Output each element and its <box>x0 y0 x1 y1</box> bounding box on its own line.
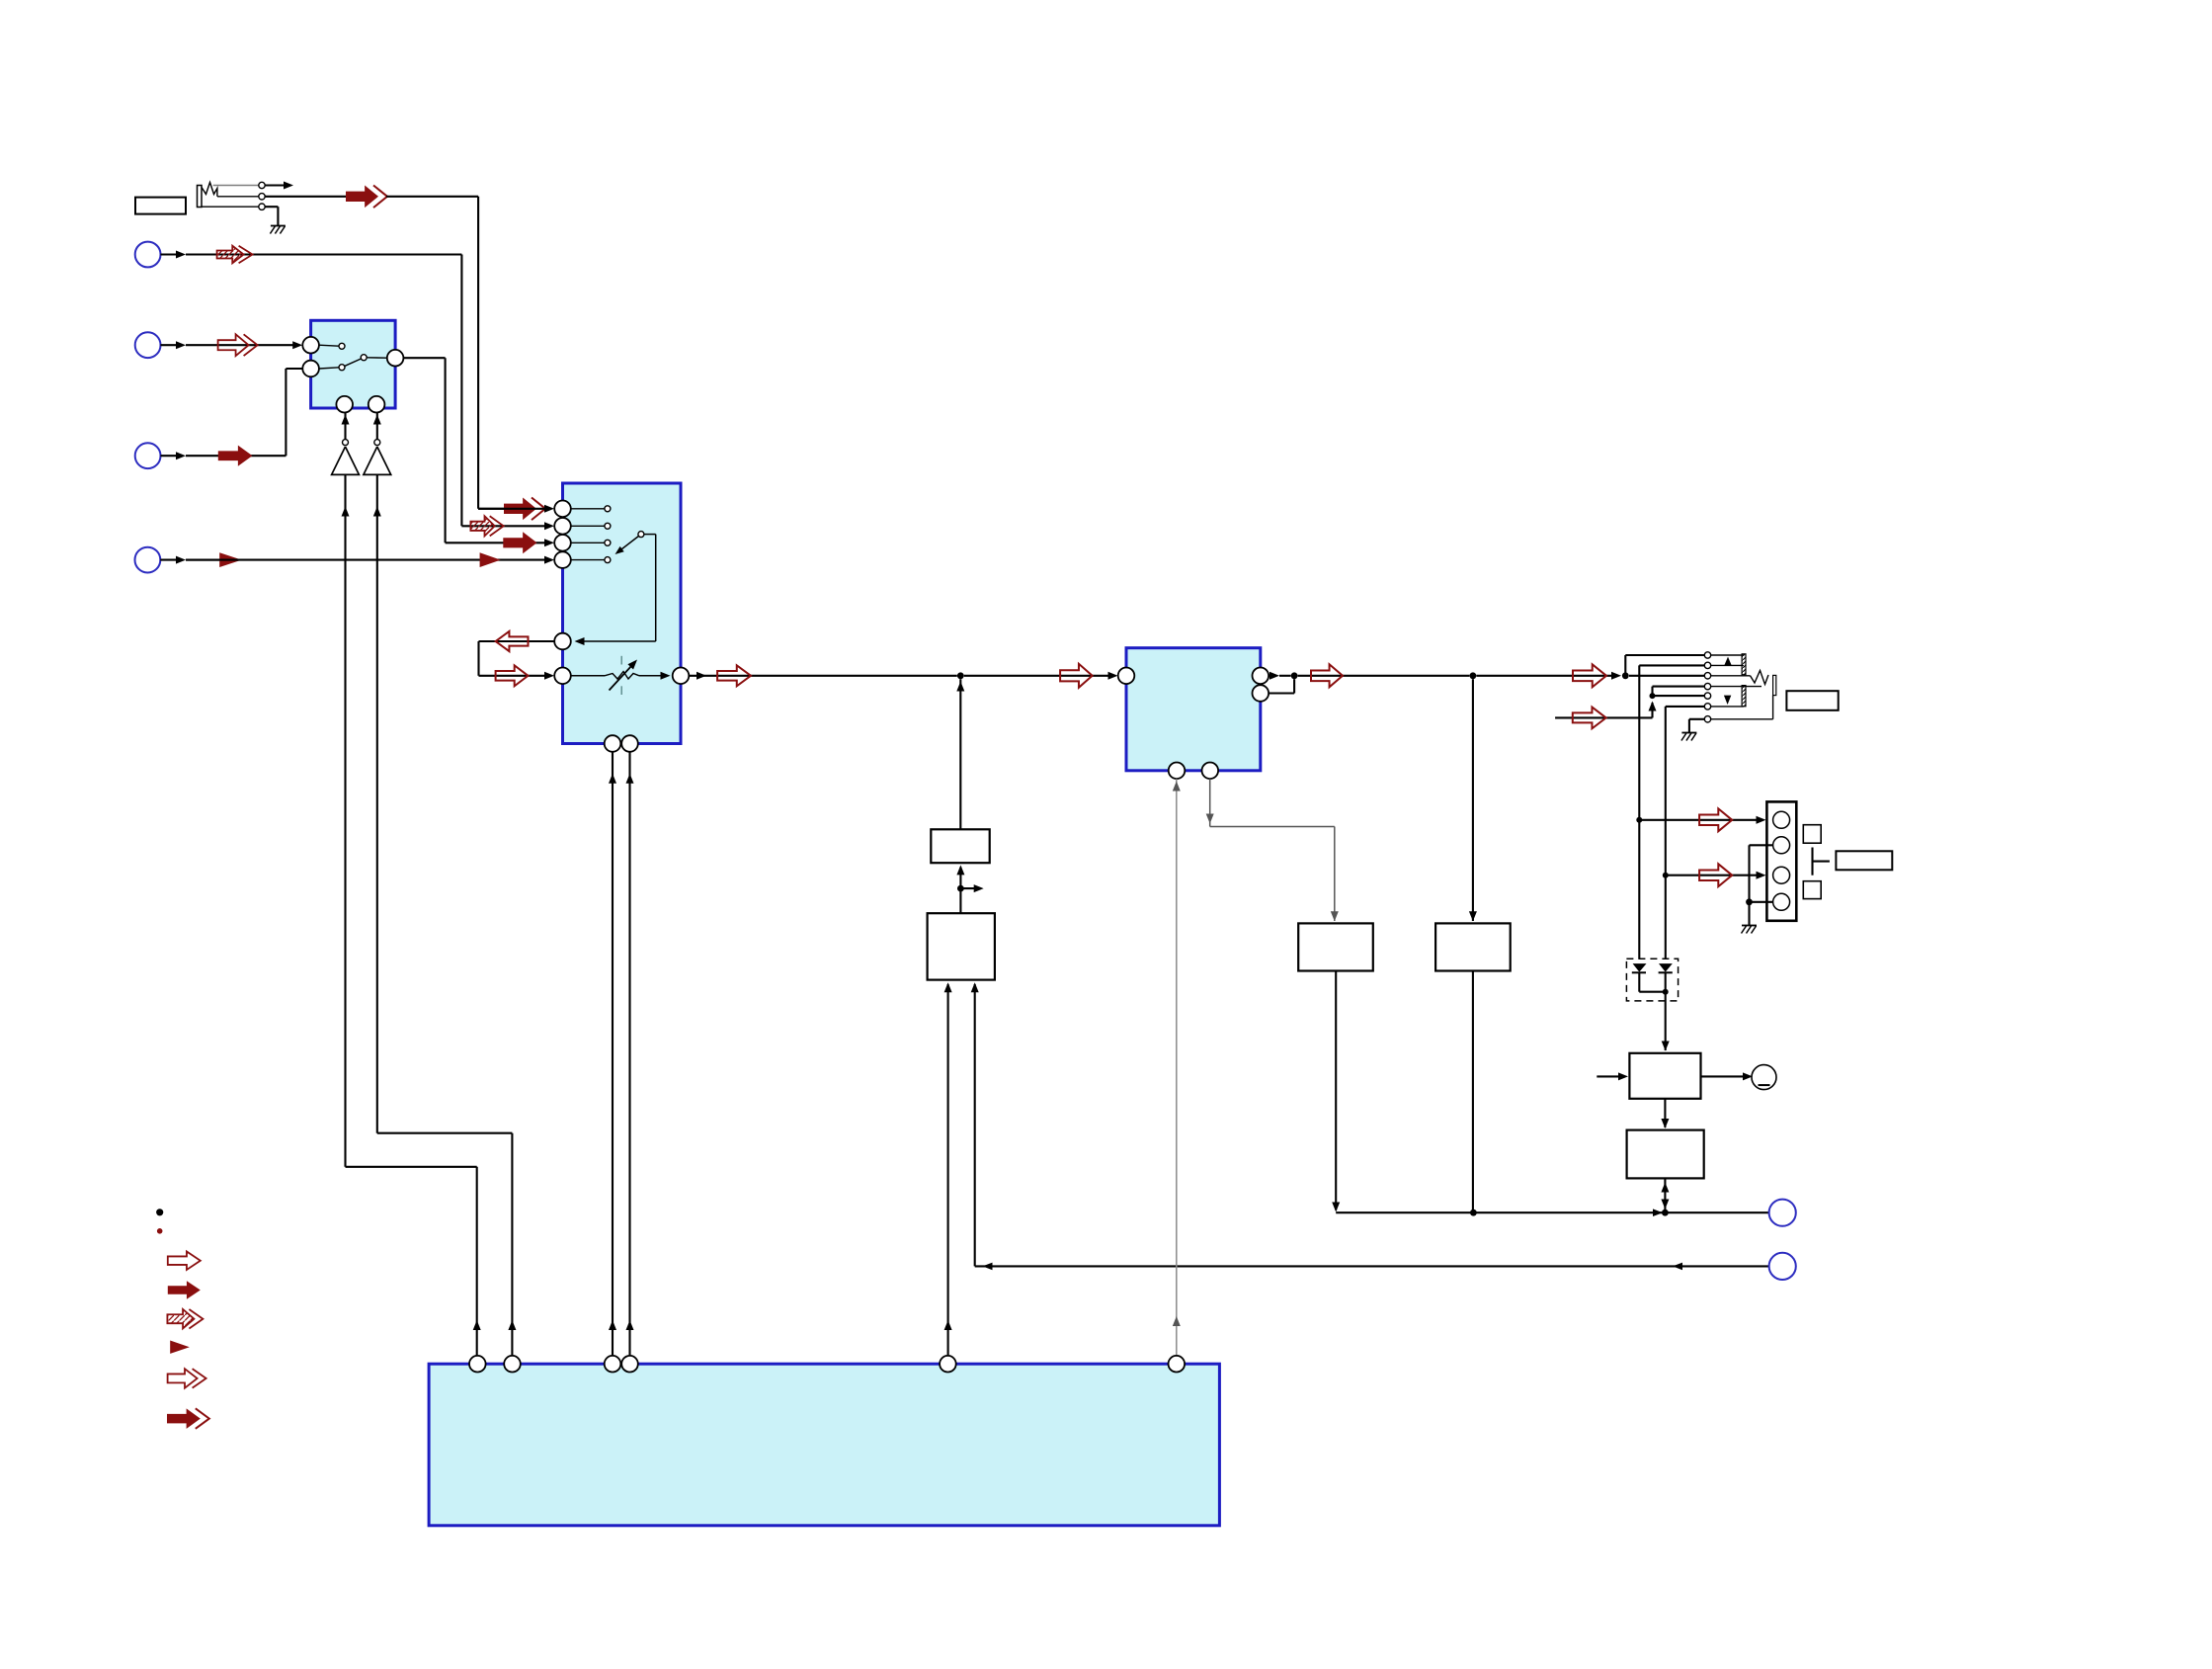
IC2 pin G (out, right) <box>673 668 690 685</box>
wire c7 to plug body <box>1711 718 1773 720</box>
wire into speaker pin1 with arrowhead <box>1757 816 1766 824</box>
speaker terminal square 2 <box>1803 881 1821 899</box>
IC3 pin bottom 1 <box>1169 763 1186 780</box>
wire main line after pin G <box>689 675 957 677</box>
IC4 pin 1 <box>469 1356 486 1373</box>
junction node bus/power <box>1662 1210 1669 1216</box>
CN1 pin 4 <box>1773 893 1790 910</box>
wire main line junction to arrow2 <box>964 675 1108 677</box>
IC2 pin A <box>554 501 571 518</box>
HP plug zigzag (tip spring) <box>1711 675 1751 677</box>
wire c4 to corner <box>1653 686 1705 688</box>
CN1 pin 3 <box>1773 867 1790 883</box>
junction node bus/B4 <box>1470 1210 1477 1216</box>
wire CN1 pin2 to ground rail <box>1750 844 1773 846</box>
IC3 pin L (left) <box>1118 668 1135 685</box>
wire riser to HP contact row 1 <box>1624 655 1626 676</box>
HP sleeve hatched bar upper <box>1742 654 1746 675</box>
HP contact circle c2 <box>1704 662 1710 668</box>
wire from J4 with arrowhead <box>161 455 178 457</box>
wire into IC3 with arrowhead <box>1108 672 1118 680</box>
wire diode common to motor-drive block with arrowhead <box>1665 992 1667 1050</box>
wire rec loop down <box>477 641 479 676</box>
IC1 switch contact a <box>319 345 339 346</box>
IC2 input selector + volume box <box>563 483 682 744</box>
wire rec/line2 with up arrowhead to c4/c5 <box>1649 702 1657 711</box>
IC1 pin OUT (right) <box>387 350 404 367</box>
CN1 pin 2 <box>1773 837 1790 854</box>
wire c1 to sleeve bar <box>1711 654 1744 656</box>
arrow open double-chevron (J3 line) <box>218 334 249 356</box>
wire (gray) IC3 bottom pin1 from system box with arrowheads <box>1176 779 1178 1356</box>
wire IC1 bottom pin1 down with arrowhead <box>344 413 346 440</box>
IC2 pin bottom 2 <box>621 735 638 752</box>
IC1 pin bottom 1 <box>336 396 353 413</box>
arrow open right (into IC2 pin F) <box>496 665 529 686</box>
IC1 switch pole contact b <box>367 357 387 359</box>
HP contact circle c7 <box>1704 716 1710 722</box>
wire control into B5 with arrowhead <box>1597 1075 1621 1077</box>
wire IC2 bottom pin2 down to IC4 with arrowheads <box>628 752 630 1356</box>
arrow open left (rec out of IC2 pin E) <box>479 640 555 642</box>
junction node headphone tie <box>1622 672 1629 679</box>
wire speaker R from c6-vertical junction <box>1663 873 1669 878</box>
wire from J5 with arrowhead <box>160 559 177 561</box>
IC2 pin E (rec out) <box>554 633 571 650</box>
arrow small filled triangle (J5 line) #2 <box>480 552 501 567</box>
arrow open (main line 3) <box>1311 664 1343 687</box>
wire MIC tip row <box>213 185 259 187</box>
wire from J2 with arrowhead <box>161 253 178 255</box>
label box (part no.) for MIC jack <box>135 198 186 214</box>
legend arrow filled double-chevron <box>167 1408 201 1429</box>
legend black dot <box>156 1209 163 1215</box>
wire B4 down to bus junction <box>1472 971 1474 1213</box>
HP contact circle c5 <box>1704 693 1710 699</box>
wire speaker L from c2-vertical junction <box>1636 817 1642 823</box>
IC2 selector lever with arrowhead <box>619 536 639 551</box>
wire corner to remote line with left arrowhead <box>975 1265 1769 1267</box>
wire B5 to motor with arrowhead <box>1701 1075 1746 1077</box>
block B6 power supply reg <box>1627 1130 1704 1179</box>
wire B5 down to B6 with arrowhead <box>1664 1099 1666 1127</box>
legend arrow hatched double-chevron <box>167 1309 194 1329</box>
IC2 pin D <box>554 551 571 568</box>
jack J3 (line input 2) blue circle <box>135 332 161 358</box>
HP plug sleeve arrow down <box>1724 696 1731 705</box>
IC2 inner contact 3 <box>571 542 605 543</box>
wire IC1 OUT to jog down into IC2 pin C <box>403 357 445 359</box>
ground (speaker return) <box>1742 925 1757 927</box>
IC2 volume attenuator symbol <box>571 675 605 677</box>
wire B3 down to bus with arrowhead <box>1335 971 1337 1210</box>
diode pack dashed box <box>1626 959 1678 1001</box>
wire mute block up to main junction with arrowhead <box>959 679 961 829</box>
jack J4 (line input 3) blue circle <box>135 443 161 468</box>
wire into IC2 pin A with arrowhead <box>478 508 546 510</box>
block B3 (meter drive) <box>1298 923 1373 970</box>
buffer amp 1 apex contact <box>343 440 349 446</box>
IC4 pin 3 <box>605 1356 621 1373</box>
IC1 pin B (left bottom) <box>302 361 319 377</box>
contact circle MIC ring <box>259 194 265 200</box>
diode D1 <box>1633 963 1647 972</box>
arrow filled double-chevron into IC2 pin A <box>504 498 536 521</box>
IC2 inner contact 1 <box>571 508 605 510</box>
IC2 selector pivot contact <box>638 532 644 538</box>
buffer amp 1 triangle <box>332 447 360 474</box>
wire main junction down into B4 with arrowhead <box>1472 679 1474 921</box>
IC4 pin 4 <box>621 1356 638 1373</box>
legend dark red dot <box>157 1228 163 1234</box>
HP plug tip arrow up <box>1724 657 1731 666</box>
wire B6 to power bus with arrowheads <box>1664 1178 1666 1212</box>
connector CN1 speaker block <box>1766 801 1796 920</box>
contact circle MIC sleeve <box>259 204 265 209</box>
wire down to ground <box>1748 902 1750 926</box>
jack J5 (line input 4) blue circle <box>135 547 161 573</box>
arrow hatched double-chevron into IC2 pin B <box>470 516 494 536</box>
IC3 pin R1 (right out) <box>1253 668 1270 685</box>
tap arrow right (label removed) <box>960 887 977 889</box>
wire junction to headphone arrow <box>1476 675 1613 677</box>
wire into speaker pin3 with arrowhead <box>1757 872 1766 879</box>
wire J2 line to corner x467 <box>460 255 462 527</box>
wire beep junction to block B1 with arrowhead <box>956 865 964 875</box>
IC1 switch contact c <box>319 368 339 369</box>
wire IC3 R2 joins main line <box>1269 692 1294 694</box>
IC2 pin F (vol in) <box>554 668 571 685</box>
motor M1 symbol <box>1752 1065 1776 1090</box>
IC1 pin bottom 2 <box>369 396 385 413</box>
jack J2 (line input 1) blue circle <box>135 242 161 268</box>
wire c6 row to vertical (speaker feed R) <box>1666 706 1705 708</box>
contact circle MIC tip <box>259 182 265 188</box>
wire junction down to block B2 <box>959 888 961 913</box>
speaker terminal square 1 <box>1803 825 1821 844</box>
junction node beep tap <box>957 885 964 892</box>
wire buffer1 down to jog with arrowheads <box>344 474 346 1166</box>
legend arrow open double-chevron <box>168 1369 198 1388</box>
junction node R2/main <box>1291 672 1298 679</box>
wire main line to arrow3 <box>1298 675 1470 677</box>
IC2 inner contact 2 <box>571 525 605 527</box>
arrow open (main line 1) <box>717 665 751 686</box>
IC1 pin A (left top) <box>302 337 319 354</box>
jack J1 MIC body bracket <box>198 186 203 208</box>
arrow open (line-2 into jack switch) <box>1555 716 1652 718</box>
speaker tie bar <box>1811 848 1813 876</box>
block B1 (muting) <box>931 829 989 863</box>
wire main into c3 <box>1629 675 1704 677</box>
IC3 amplifier box <box>1126 648 1261 771</box>
wire c5 branch from junction <box>1650 693 1656 699</box>
legend arrow filled <box>168 1281 201 1299</box>
HP plug bracket <box>1773 675 1776 695</box>
junction node diode common <box>1663 989 1669 995</box>
jack J7 (remote) blue circle <box>1769 1253 1796 1280</box>
wire c2 row to vertical (speaker feed L) <box>1711 664 1744 666</box>
resistor zigzag in MIC jack <box>202 183 217 197</box>
CN1 pin 1 <box>1773 811 1790 828</box>
buffer amp 2 apex contact <box>374 440 380 446</box>
wire c7 to ground tap <box>1689 718 1704 720</box>
HP contact circle c6 <box>1704 704 1710 709</box>
wire vertical c2 down to speaker connector and diode <box>1638 665 1640 963</box>
label box (part no.) speaker <box>1836 851 1892 870</box>
IC4 pin 2 <box>504 1356 521 1373</box>
bus wire to jack J6 with arrowhead <box>1336 1211 1768 1213</box>
wire MIC line to selector corner <box>386 196 478 198</box>
arrow open (to headphone jack) <box>1573 664 1606 687</box>
IC1 relay/record selector box <box>311 320 396 408</box>
arrow open (speaker L) <box>1699 808 1732 831</box>
wire (gray) IC3 bottom pin2 to meter block with arrowheads <box>1209 779 1211 826</box>
IC1 switch lever <box>345 359 362 366</box>
wire J5 line across <box>186 559 546 561</box>
IC2 selector pole wire to pin E <box>644 534 656 536</box>
IC3 pin bottom 2 <box>1202 763 1219 780</box>
arrow filled into IC2 pin C <box>503 532 536 553</box>
wire from J3 with arrowhead <box>161 344 178 346</box>
arrow small filled triangle (J5 line) #1 <box>219 552 241 567</box>
HP sleeve hatched bar lower <box>1742 686 1746 707</box>
diode D2 <box>1659 963 1673 972</box>
wire J4 jog up to relay box pin B <box>285 369 287 456</box>
wire up into B2 with arrowhead (right) <box>971 982 979 992</box>
wire attenuator to pin G with arrowhead <box>661 672 671 680</box>
buffer amp 2 triangle <box>364 447 391 474</box>
IC2 pin B <box>554 518 571 535</box>
HP contact circle c3 <box>1704 673 1710 679</box>
HP contact circle c1 <box>1704 652 1710 658</box>
jack J6 (DC in) blue circle <box>1769 1200 1796 1226</box>
wire into IC2 pin C with arrowhead <box>544 539 554 546</box>
IC2 inner contact 4 <box>571 559 605 561</box>
wire J3 to relay box pin with arrowhead <box>292 341 302 349</box>
label box (part no.) headphone jack <box>1786 691 1838 710</box>
IC4 pin 5 <box>940 1356 956 1373</box>
IC2 pin C <box>554 535 571 551</box>
junction node speaker ground <box>1746 898 1753 905</box>
ground (MIC jack sleeve) <box>271 225 286 227</box>
block B5 motor drive <box>1629 1053 1700 1099</box>
arrow open (speaker R) <box>1699 864 1732 886</box>
wire CN1 pin4 to ground rail <box>1750 901 1773 903</box>
wire into headphone jack node with arrowhead <box>1611 672 1621 680</box>
arrow filled double-chevron (MIC line) <box>346 186 378 209</box>
wire buffer2 down to jog with arrowheads <box>376 474 378 1132</box>
wire MIC tip output with arrowhead <box>265 184 285 186</box>
legend small filled triangle <box>170 1341 190 1354</box>
wire MIC sleeve to ground <box>202 206 259 208</box>
ground (headphone sleeve) <box>1681 732 1696 734</box>
HP contact circle c4 <box>1704 683 1710 689</box>
arrow filled (J4 line) <box>218 446 253 466</box>
wire system line up into B2 with arrowhead (left) <box>944 982 952 992</box>
IC3 pin R2 (right aux) <box>1253 685 1270 702</box>
arrow hatched double-chevron (J2 line) <box>217 246 244 264</box>
wire IC1 bottom pin2 down with arrowhead <box>376 413 378 440</box>
block B2 (beep osc) <box>928 913 995 979</box>
wire into IC2 pin F with arrowhead <box>544 672 554 680</box>
arrow open (main line 2) <box>1060 664 1093 688</box>
wire IC2 bottom pin1 down to IC4 with arrowheads <box>612 752 614 1356</box>
wire into IC2 pin B with arrowhead <box>544 522 554 530</box>
block B4 (power switch) <box>1435 923 1511 970</box>
junction node main/meter <box>1470 672 1477 679</box>
IC2 pin bottom 1 <box>605 735 621 752</box>
wire IC3 R1 to junction with arrowhead <box>1269 675 1274 677</box>
wire MIC ring row to arrow <box>217 196 259 198</box>
IC4 pin 6 <box>1169 1356 1186 1373</box>
legend arrow open <box>168 1251 201 1270</box>
wire vertical c6 down to speaker connector and diode <box>1665 707 1667 963</box>
junction node main/mute <box>957 672 964 679</box>
IC4 system control / DSP main box <box>429 1364 1219 1526</box>
wire J5 to selector pin D with arrowhead <box>544 556 554 564</box>
